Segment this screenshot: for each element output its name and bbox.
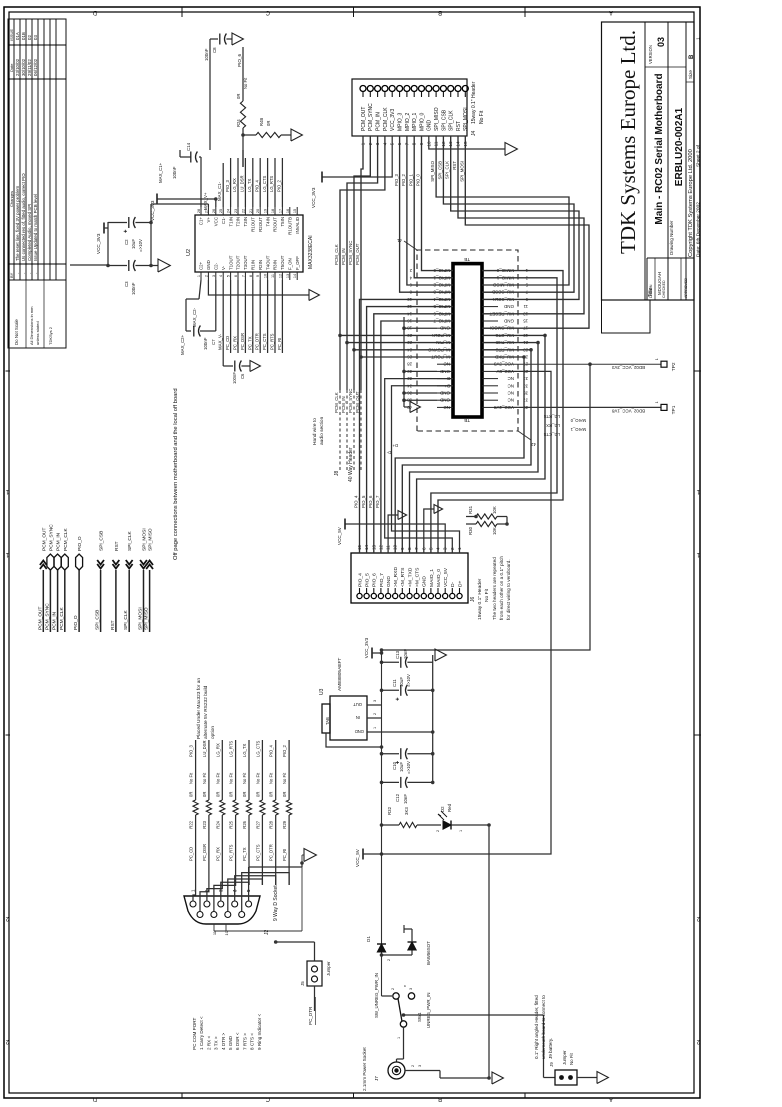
jumper J9 bbox=[544, 1077, 556, 1079]
J2 pin 1 bbox=[190, 901, 196, 907]
wire regulator output to TP2 net bbox=[382, 364, 591, 653]
svg-text:BAW56SOT: BAW56SOT bbox=[426, 941, 431, 965]
svg-text:IN: IN bbox=[356, 715, 360, 720]
svg-text:from each other on a 0.1" pitc: from each other on a 0.1" pitch bbox=[499, 556, 504, 620]
svg-text:D: D bbox=[92, 1096, 97, 1102]
svg-text:PC_DTR: PC_DTR bbox=[308, 1006, 313, 1025]
svg-text:SPI_CLK: SPI_CLK bbox=[449, 110, 455, 131]
svg-text:C8: C8 bbox=[212, 47, 217, 53]
module pin 11 GND bbox=[482, 306, 498, 308]
svg-text:GND: GND bbox=[355, 729, 364, 734]
svg-text:Issue Updated to match PCB lev: Issue Updated to match PCB level bbox=[33, 194, 38, 261]
J2 pin 9 bbox=[239, 912, 245, 918]
svg-text:No Fit: No Fit bbox=[479, 110, 485, 124]
wire PCM_IN J4 pin3 bbox=[347, 136, 453, 343]
svg-text:C: C bbox=[265, 1096, 270, 1102]
svg-text:No Fit: No Fit bbox=[189, 772, 194, 784]
svg-text:SW_UNREG_PWR_IN: SW_UNREG_PWR_IN bbox=[374, 973, 379, 1018]
wire VCC to C8 bbox=[209, 39, 211, 150]
svg-text:BD02_VCC_3V3: BD02_VCC_3V3 bbox=[611, 365, 645, 370]
wire <M_RTS J6 pin9 bbox=[402, 350, 531, 553]
svg-text:R1IN: R1IN bbox=[251, 260, 256, 270]
svg-text:PIO_2: PIO_2 bbox=[401, 173, 406, 186]
svg-text:V+: V+ bbox=[206, 217, 211, 223]
svg-text:10: 10 bbox=[264, 274, 268, 278]
J4 pin 13 SPI_CLK bbox=[448, 86, 454, 92]
svg-text:Copyright TDK Systems Europe L: Copyright TDK Systems Europe Ltd. 2000 bbox=[688, 149, 694, 257]
svg-text:PC_RX: PC_RX bbox=[215, 847, 220, 861]
svg-text:No Fit: No Fit bbox=[229, 772, 234, 784]
net LG_RX stub U2 pin23 bbox=[237, 158, 239, 207]
svg-text:PIO_5: PIO_5 bbox=[365, 573, 371, 587]
ground rail for caps bbox=[432, 655, 434, 783]
svg-text:T1OUT: T1OUT bbox=[228, 255, 233, 270]
net LU_DSR stub U2 pin22 bbox=[244, 158, 246, 207]
wire PIO_6 J6 pin13 bbox=[374, 314, 453, 553]
svg-text:NC: NC bbox=[443, 405, 450, 410]
svg-text:03: 03 bbox=[656, 37, 666, 47]
title block bbox=[602, 22, 695, 300]
svg-text:8: 8 bbox=[249, 275, 253, 277]
U2 pin 23 T2IN bbox=[237, 207, 239, 215]
switch SW1 bbox=[382, 995, 393, 997]
module pin 21 MU_TXD bbox=[482, 342, 498, 344]
svg-text:21: 21 bbox=[249, 209, 253, 213]
wire J2 pin8 to R27 bbox=[228, 879, 263, 912]
svg-text:APPROVED: APPROVED bbox=[684, 278, 688, 298]
svg-text:PIO_4: PIO_4 bbox=[357, 573, 363, 587]
capacitor C8 100nF bbox=[210, 38, 218, 40]
module pin 36 GND bbox=[437, 392, 453, 394]
svg-text:BY: BY bbox=[9, 272, 14, 278]
resistor R26 0R bbox=[246, 800, 251, 815]
svg-text:<M_TXD: <M_TXD bbox=[407, 567, 413, 587]
svg-text:Changes: Changes bbox=[9, 191, 14, 207]
svg-text:SPI_CSB: SPI_CSB bbox=[437, 161, 442, 180]
svg-text:PCM_IN: PCM_IN bbox=[52, 611, 58, 630]
ground below C8 bbox=[232, 33, 243, 45]
port SPI_CSB bbox=[100, 570, 102, 632]
module pin 38 GND bbox=[437, 399, 453, 401]
svg-text:J9: J9 bbox=[549, 1062, 554, 1067]
port SPI_MISO bbox=[149, 570, 151, 632]
svg-text:100nF: 100nF bbox=[203, 337, 208, 350]
svg-text:25: 25 bbox=[219, 209, 223, 213]
resistor R22 0R bbox=[193, 800, 198, 815]
net PC_RTS stub U2 pin11 bbox=[274, 280, 276, 353]
svg-text:The reset line, fixed 3V power: The reset line, fixed 3V power problem bbox=[15, 185, 20, 261]
svg-text:7 RTS >: 7 RTS > bbox=[242, 1033, 247, 1050]
module pin 29 VCC_5V bbox=[482, 370, 498, 372]
svg-text:GND: GND bbox=[206, 260, 211, 270]
svg-text:RST: RST bbox=[452, 161, 457, 170]
U2 pin 10 T4OUT bbox=[267, 272, 269, 280]
net PC_RX stub U2 pin6 bbox=[237, 280, 239, 353]
svg-text:PC_RTS: PC_RTS bbox=[229, 844, 234, 861]
svg-text:No Fit: No Fit bbox=[215, 772, 220, 784]
svg-text:J2: J2 bbox=[264, 930, 270, 936]
svg-text:PIO_1: PIO_1 bbox=[408, 173, 413, 186]
wire VCC_5V distribution bbox=[382, 371, 552, 854]
connector J2 9-way D socket bbox=[184, 896, 260, 924]
svg-text:1: 1 bbox=[655, 358, 659, 360]
module pin 22 M_PIN bbox=[437, 342, 453, 344]
svg-text:3: 3 bbox=[212, 275, 216, 277]
U2 pin 15 INVALID bbox=[296, 207, 298, 215]
module pin 30 GND bbox=[437, 370, 453, 372]
module pin 13 MU_RESET bbox=[482, 313, 498, 315]
svg-text:Jumper: Jumper bbox=[562, 1050, 567, 1065]
svg-text:11: 11 bbox=[523, 304, 528, 309]
svg-text:PIO_5: PIO_5 bbox=[361, 495, 366, 508]
U2 pin 8 R1IN bbox=[252, 272, 254, 280]
svg-text:28: 28 bbox=[197, 209, 201, 213]
svg-text:100nF: 100nF bbox=[172, 166, 177, 179]
svg-text:PC_CD: PC_CD bbox=[189, 847, 194, 861]
port PIO_O bbox=[78, 570, 80, 632]
svg-text:PC_DSR: PC_DSR bbox=[202, 844, 207, 861]
J2 pin 3 bbox=[218, 901, 224, 907]
svg-text:PIO_6: PIO_6 bbox=[372, 573, 378, 587]
svg-text:CHECKED: CHECKED bbox=[662, 280, 666, 298]
svg-text:10uF: 10uF bbox=[131, 239, 136, 249]
svg-text:2: 2 bbox=[436, 830, 440, 832]
svg-text:Drawing Number: Drawing Number bbox=[669, 220, 674, 255]
svg-text:B: B bbox=[438, 9, 442, 15]
U2 pin 7 T3OUT bbox=[244, 272, 246, 280]
svg-text:15: 15 bbox=[523, 319, 528, 324]
svg-text:PCM_OUT: PCM_OUT bbox=[355, 243, 360, 265]
svg-text:R4B: R4B bbox=[259, 118, 264, 126]
svg-text:alternate 5V RS232 build: alternate 5V RS232 build bbox=[203, 685, 209, 739]
J6 pin 4 MAIO_0 bbox=[435, 593, 440, 598]
svg-text:SPI_CSB: SPI_CSB bbox=[441, 109, 447, 131]
module pin 15 GND bbox=[482, 320, 498, 322]
svg-text:C2+: C2+ bbox=[199, 261, 204, 270]
J6 pin 13 PIO_6 bbox=[371, 593, 376, 598]
svg-text:<M_RTS: <M_RTS bbox=[400, 567, 406, 587]
svg-text:LG_CTS: LG_CTS bbox=[544, 432, 560, 437]
wire J4 pin10 GND bbox=[429, 136, 505, 149]
svg-text:TB: TB bbox=[464, 257, 470, 262]
U2 pin2 GND bbox=[208, 280, 309, 295]
svg-text:1: 1 bbox=[397, 1037, 401, 1039]
J4 pin 15 SPI_MOSI bbox=[462, 86, 468, 92]
port RST bbox=[115, 570, 117, 632]
module top GND bus bbox=[404, 327, 437, 329]
svg-text:D: D bbox=[92, 9, 97, 15]
capacitor C14 MAX_C1+ at U2 pin28 bbox=[200, 157, 202, 207]
test point TP1 bbox=[661, 404, 667, 410]
svg-text:PCM_SYNC: PCM_SYNC bbox=[348, 389, 353, 413]
J6 pin 1 D+ bbox=[457, 593, 462, 598]
U2 pin 5 T1OUT bbox=[230, 272, 232, 280]
svg-text:=>10V: =>10V bbox=[406, 761, 411, 774]
empty cell left of title block bbox=[602, 300, 651, 333]
capacitor C12 10nF bbox=[380, 781, 384, 785]
module pin 24 M_PSYNC bbox=[437, 349, 453, 351]
ground rail bottom bbox=[488, 825, 490, 1078]
svg-text:MAX_C2+: MAX_C2+ bbox=[180, 334, 185, 355]
svg-text:PIO_6: PIO_6 bbox=[368, 495, 373, 508]
svg-text:9 Ring Indicator <: 9 Ring Indicator < bbox=[257, 1014, 262, 1050]
capacitor C3 100nF bbox=[108, 265, 127, 267]
module pin 5 MU_MISO bbox=[482, 284, 498, 286]
svg-text:PCM_IN: PCM_IN bbox=[341, 248, 346, 265]
wire VCC_3V3 to TP2 bbox=[498, 363, 661, 365]
svg-text:SPI_MISO: SPI_MISO bbox=[430, 160, 435, 181]
svg-text:3: 3 bbox=[409, 988, 413, 990]
module pin 37 NC bbox=[482, 399, 498, 401]
net PC_CD stub U2 pin5 bbox=[230, 280, 232, 353]
svg-text:No Fit: No Fit bbox=[569, 1053, 574, 1065]
svg-text:R29: R29 bbox=[282, 820, 287, 828]
svg-text:1: 1 bbox=[459, 830, 463, 832]
svg-text:F_ON: F_ON bbox=[288, 258, 293, 270]
svg-text:LG_CTS: LG_CTS bbox=[262, 176, 267, 192]
svg-text:10nF: 10nF bbox=[403, 649, 408, 659]
svg-text:PIO_6: PIO_6 bbox=[237, 54, 242, 67]
U2 pin 6 T2OUT bbox=[237, 272, 239, 280]
svg-text:0R: 0R bbox=[282, 792, 287, 797]
svg-text:PC_CTS: PC_CTS bbox=[262, 333, 267, 350]
svg-text:DRAWN: DRAWN bbox=[649, 284, 653, 298]
svg-text:17: 17 bbox=[278, 209, 282, 213]
net LG_CTS stub U2 pin19 bbox=[267, 158, 269, 207]
svg-text:5: 5 bbox=[227, 275, 231, 277]
svg-text:NC: NC bbox=[507, 398, 514, 403]
power VCC_3V3 at regulator output bbox=[371, 648, 373, 659]
svg-text:10K: 10K bbox=[492, 506, 497, 514]
U2 pin 18 R3OUT bbox=[274, 207, 276, 215]
svg-text:0R: 0R bbox=[255, 792, 260, 797]
svg-text:0R: 0R bbox=[269, 792, 274, 797]
module pin 33 NC bbox=[482, 385, 498, 387]
svg-text:D-: D- bbox=[386, 450, 391, 455]
wire D+ J6 pin1 bbox=[392, 386, 460, 553]
J2 pin 8 bbox=[225, 912, 231, 918]
U2 pin 12 T5OUT bbox=[281, 272, 283, 280]
resistor R24 0R No Fit bbox=[240, 101, 245, 128]
U2 pin 19 T4IN bbox=[267, 207, 269, 215]
svg-text:R24: R24 bbox=[215, 820, 220, 828]
svg-text:R2IN: R2IN bbox=[258, 260, 263, 270]
svg-text:SPI_MISO: SPI_MISO bbox=[144, 607, 150, 630]
net PC_DSR stub U2 pin7 bbox=[244, 280, 246, 353]
svg-text:2: 2 bbox=[391, 988, 395, 990]
svg-text:29/11/02: 29/11/02 bbox=[27, 59, 32, 76]
svg-text:40 Way Header: 40 Way Header bbox=[348, 447, 354, 482]
capacitor C10 10uF bbox=[380, 752, 384, 756]
svg-text:A: A bbox=[609, 9, 613, 15]
svg-text:TAB: TAB bbox=[325, 717, 330, 725]
svg-text:SPI_CLK: SPI_CLK bbox=[123, 609, 129, 630]
wire J2 pin7 to R25 bbox=[214, 885, 236, 912]
svg-text:PCM_CLK: PCM_CLK bbox=[59, 607, 65, 630]
svg-text:10K: 10K bbox=[492, 527, 497, 535]
svg-text:10nF: 10nF bbox=[403, 794, 408, 804]
svg-text:PC_RTS: PC_RTS bbox=[270, 333, 275, 350]
resistor R27 0R bbox=[260, 800, 265, 815]
svg-text:R27: R27 bbox=[255, 820, 260, 828]
svg-text:PCM_SYNC: PCM_SYNC bbox=[48, 524, 54, 551]
svg-text:3 TX >: 3 TX > bbox=[214, 1036, 219, 1050]
power VCC_5V tap bbox=[362, 849, 364, 860]
wire J2 pin3 to R26 bbox=[221, 882, 249, 901]
U2 pin 21 R1OUT bbox=[252, 207, 254, 215]
ground below C3 bbox=[151, 265, 158, 267]
wire MAIO_1 J6 pin5 bbox=[431, 278, 557, 553]
module pin 1 MMIO_0 bbox=[482, 270, 498, 272]
svg-text:PIO_7: PIO_7 bbox=[379, 573, 385, 587]
J4 pin 3 PCM_IN bbox=[375, 86, 381, 92]
U2 pin 11 R3IN bbox=[274, 272, 276, 280]
module pin 9 MU_SCLK bbox=[482, 298, 498, 300]
module pin 20 M_PCLK bbox=[437, 334, 453, 336]
svg-text:C7: C7 bbox=[211, 339, 216, 345]
revision history table bbox=[8, 19, 66, 280]
regulator U3 AME8805AEFT bbox=[330, 696, 367, 740]
svg-text:SPI_MOSI: SPI_MOSI bbox=[459, 161, 464, 182]
svg-text:06/12/02: 06/12/02 bbox=[33, 58, 38, 76]
svg-text:SPI_CSB: SPI_CSB bbox=[99, 531, 105, 551]
module mounting pin 42 bbox=[518, 431, 531, 440]
svg-text:B: B bbox=[438, 1096, 442, 1102]
junction to J9 feed bbox=[402, 1013, 406, 1017]
J4 pin 6 MPIO_3 bbox=[397, 86, 403, 92]
net LG_TX stub U2 pin21 bbox=[252, 158, 254, 207]
svg-text:T2IN: T2IN bbox=[236, 217, 241, 227]
svg-text:15way 0.1" Header: 15way 0.1" Header bbox=[471, 81, 477, 124]
svg-text:4: 4 bbox=[219, 275, 223, 277]
svg-text:NC: NC bbox=[443, 362, 450, 367]
svg-text:VCC: VCC bbox=[214, 217, 219, 226]
svg-text:MAX_C1+: MAX_C1+ bbox=[158, 162, 163, 183]
svg-text:PIO_O: PIO_O bbox=[77, 536, 83, 551]
socket J7 2.1mm power bbox=[388, 1062, 405, 1079]
svg-text:PIO_O: PIO_O bbox=[73, 615, 79, 630]
svg-text:20: 20 bbox=[256, 209, 260, 213]
ground below R48 bbox=[291, 129, 302, 141]
svg-text:RST: RST bbox=[110, 620, 116, 630]
svg-text:*: * bbox=[404, 985, 410, 987]
U2 pin 28 C1+ bbox=[200, 207, 202, 215]
U2 pin 22 T3IN bbox=[244, 207, 246, 215]
svg-text:2: 2 bbox=[387, 959, 391, 961]
svg-text:TDKSys 2: TDKSys 2 bbox=[48, 326, 53, 345]
svg-text:VCC_3V3: VCC_3V3 bbox=[96, 233, 101, 254]
svg-text:MAX_C2-: MAX_C2- bbox=[192, 307, 197, 327]
svg-text:R1OUT: R1OUT bbox=[251, 217, 256, 232]
svg-text:PCM_CLK: PCM_CLK bbox=[334, 392, 339, 413]
module pin 18 GND bbox=[437, 327, 453, 329]
svg-text:PCM_OUT: PCM_OUT bbox=[41, 527, 47, 551]
wire MPIO_3 J4 pin6 bbox=[400, 136, 453, 292]
svg-text:0R: 0R bbox=[242, 792, 247, 797]
J2 pin 7 bbox=[211, 912, 217, 918]
connector J6 15way header bbox=[351, 553, 468, 603]
svg-text:LG_RX: LG_RX bbox=[232, 178, 237, 192]
svg-text:MPIO_3: MPIO_3 bbox=[397, 112, 403, 131]
wire >M_RXD J6 pin10 bbox=[395, 357, 524, 553]
ground below J9 bbox=[577, 1077, 597, 1079]
U2 pin 4 V- bbox=[222, 272, 224, 280]
svg-text:J9 battery.: J9 battery. bbox=[548, 1038, 553, 1059]
J4 pin 5 VCC_3V3 bbox=[389, 86, 395, 92]
svg-text:Red: Red bbox=[447, 803, 452, 812]
wire J2 pin4 to R28 bbox=[235, 876, 276, 901]
module J8 40-way header body bbox=[453, 264, 482, 417]
J6 pin 15 PIO_4 bbox=[357, 593, 362, 598]
resistor R24 0R bbox=[220, 800, 225, 815]
svg-text:SPI_CLK: SPI_CLK bbox=[127, 530, 133, 551]
svg-text:01A: 01A bbox=[15, 32, 20, 40]
module pin 34 D+ bbox=[437, 385, 453, 387]
svg-text:9: 9 bbox=[256, 275, 260, 277]
module pin 35 NC bbox=[482, 392, 498, 394]
J6 pin 8 <M_TXD bbox=[407, 593, 412, 598]
svg-text:PIO_3: PIO_3 bbox=[394, 173, 399, 186]
zone ticks and labels bbox=[181, 1093, 183, 1098]
U2 pin 13 F_ON bbox=[289, 272, 291, 280]
svg-text:TB: TB bbox=[464, 418, 470, 423]
svg-text:26: 26 bbox=[212, 209, 216, 213]
net PC_DTR stub U2 pin9 bbox=[259, 280, 261, 353]
J2 pin 6 bbox=[197, 912, 203, 918]
wire SPI_MOSI J4 pin15 bbox=[465, 136, 589, 328]
J4 pin 1 PCM_OUT bbox=[360, 86, 366, 92]
svg-text:R2OUT: R2OUT bbox=[258, 217, 263, 232]
svg-text:1: 1 bbox=[655, 401, 659, 403]
module pin 12 MPIO_5 bbox=[437, 306, 453, 308]
svg-text:D2: D2 bbox=[440, 806, 445, 812]
svg-text:15way 0.1" Header: 15way 0.1" Header bbox=[477, 578, 483, 620]
svg-text:LG_RX: LG_RX bbox=[215, 743, 220, 757]
module pin 2 MPIO_0 bbox=[437, 270, 453, 272]
svg-text:VCC_5V: VCC_5V bbox=[355, 848, 360, 867]
J6 pin 10 >M_RXD bbox=[393, 593, 398, 598]
svg-text:D+: D+ bbox=[392, 443, 398, 448]
connector J4 15way header bbox=[352, 79, 467, 136]
svg-text:PC_RI: PC_RI bbox=[282, 849, 287, 861]
wire PIO_4 J6 pin15 bbox=[360, 299, 454, 553]
wire off-board VCC_3V3 bbox=[70, 264, 108, 266]
J4 pin 8 MPIO_1 bbox=[411, 86, 417, 92]
svg-text:11: 11 bbox=[271, 274, 275, 278]
J6 pin 3 VCC_5V bbox=[443, 593, 448, 598]
hand-wire dashed PCM_IN bbox=[346, 343, 348, 390]
U2 pin 20 R2OUT bbox=[259, 207, 261, 215]
svg-text:13: 13 bbox=[286, 274, 290, 278]
svg-text:AME8805AEFT: AME8805AEFT bbox=[337, 658, 343, 691]
svg-text:PCM_IN: PCM_IN bbox=[56, 532, 62, 551]
svg-text:Size: Size bbox=[688, 70, 693, 79]
wire MPIO_0 J4 pin9 bbox=[422, 136, 454, 271]
svg-text:PCM_SYNC: PCM_SYNC bbox=[44, 603, 50, 630]
svg-text:LG_TX: LG_TX bbox=[247, 179, 252, 192]
svg-text:0.1" Right angled Header, fitt: 0.1" Right angled Header, fitted bbox=[534, 995, 539, 1059]
wire SPI_CSB J4 pin12 bbox=[443, 136, 574, 292]
svg-text:D-: D- bbox=[450, 581, 456, 587]
svg-text:ISSUE: ISSUE bbox=[9, 29, 14, 41]
capacitor C6 on MAX_V- bbox=[223, 365, 233, 367]
svg-text:GND: GND bbox=[439, 398, 450, 403]
net PIO_4 stub U2 pin20 bbox=[259, 158, 261, 207]
svg-text:100nF: 100nF bbox=[204, 48, 209, 61]
svg-text:2.1mm Power Socket: 2.1mm Power Socket bbox=[362, 1047, 367, 1091]
svg-text:PCM_CLK: PCM_CLK bbox=[63, 528, 69, 551]
svg-text:100nF: 100nF bbox=[131, 282, 136, 295]
